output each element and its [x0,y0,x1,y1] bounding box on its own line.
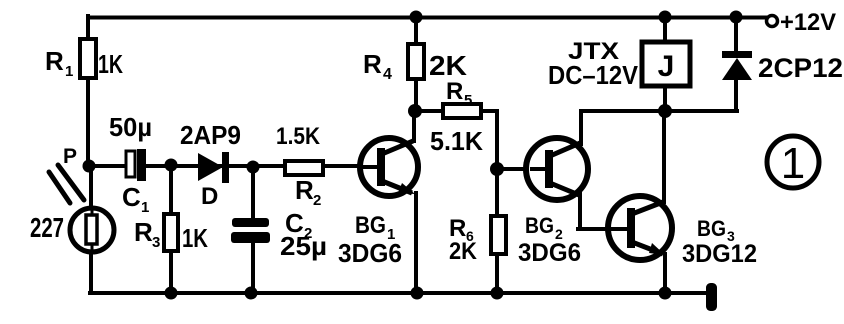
figure number circle 1 [767,136,819,188]
node bottom rail C2 [245,287,258,300]
light arrow 2 [58,165,84,200]
svg-text:2K: 2K [429,50,467,81]
node top rail R4 [410,11,423,24]
svg-text:DC–12V: DC–12V [548,60,639,90]
wire photoresistor branch down to bottom rail [89,166,93,293]
svg-text:R: R [295,175,314,205]
wire left drop from rail through R1 to node P [86,16,90,166]
transistor BG3 [608,196,672,260]
photoresistor 227 circle [70,208,114,252]
svg-text:3DG12: 3DG12 [682,240,757,268]
photoresistor 227 body [86,215,97,244]
resistor R1 [80,39,96,78]
svg-text:BG: BG [697,216,726,241]
capacitor C1 left plate [126,151,135,177]
svg-text:R: R [45,46,64,76]
wire corner down to BG2 base node [495,111,499,169]
light arrow 1 [49,172,70,203]
svg-text:5: 5 [464,92,472,109]
wire top supply rail [88,16,766,20]
svg-text:+12V: +12V [780,9,836,36]
wire R6 branch down to bottom rail [495,167,499,293]
node bottom rail BG3 emitter [659,287,672,300]
svg-text:1K: 1K [98,49,123,79]
wire BG2 emitter down then right to BG3 base [578,194,610,229]
svg-text:1.5K: 1.5K [276,123,321,150]
resistor R5 [443,104,481,118]
wire C2 branch lower [251,242,255,293]
node after C1 [165,159,178,172]
diode D triangle [198,153,223,181]
svg-text:3DG6: 3DG6 [518,239,581,267]
capacitor C2 top plate [232,218,269,227]
node bottom rail R3 [165,287,178,300]
wire 2CP12 bottom stub [734,78,738,111]
svg-text:D: D [201,183,218,210]
svg-text:1: 1 [65,63,73,80]
svg-text:R: R [363,49,382,79]
wire BG3 emitter down to bottom rail [663,254,667,293]
resistor R6 [491,216,506,254]
svg-text:BG: BG [525,213,554,238]
svg-text:4: 4 [383,66,392,83]
wire BG3 collector up to relay node [662,111,666,202]
wire BG1 emitter down to bottom rail [414,193,418,293]
svg-text:J: J [658,50,675,83]
terminal +12V circle [767,16,778,27]
wire BG1 collector up to node [412,109,416,141]
svg-text:2CP12: 2CP12 [758,53,843,83]
resistor R3 [164,214,178,251]
wire R5 node to corner [415,109,497,113]
diode D cathode bar [222,152,229,183]
wire signal line C1 to BG1 base [146,164,360,168]
capacitor C1 right plate [137,149,146,181]
node bottom rail BG1 emitter [411,287,424,300]
svg-text:R: R [446,78,463,105]
node bottom rail R6 [491,287,504,300]
svg-text:2AP9: 2AP9 [180,120,241,150]
svg-text:C: C [122,182,141,212]
svg-text:P: P [63,145,77,168]
wire relay bottom to link node [663,86,667,111]
wire relay stem from top rail [663,17,667,42]
svg-text:BG: BG [355,212,386,239]
transistor BG1 [360,138,418,196]
svg-text:1K: 1K [182,223,208,253]
svg-text:1: 1 [141,199,149,216]
svg-text:5.1K: 5.1K [430,126,483,156]
transistor BG2 [526,138,588,200]
node top rail relay [659,11,672,24]
relay J box [642,42,690,86]
wire horizontal link under relay [581,109,737,113]
photoresistor 227 inner wire [91,210,94,250]
diode 2CP12 cathode bar [722,51,752,58]
ground [706,283,717,311]
wire bottom ground rail [90,291,707,295]
svg-text:3: 3 [152,234,160,251]
svg-text:227: 227 [30,212,64,243]
wire BG2 collector up to horizontal link [579,111,583,144]
svg-text:50µ: 50µ [109,112,152,142]
capacitor C2 bottom plate [231,232,270,243]
wire 2CP12 top stub [734,17,738,52]
wire R3 branch down to bottom rail [169,166,173,293]
node A (P node) [83,160,96,173]
svg-text:R: R [134,217,153,247]
svg-text:3DG6: 3DG6 [338,238,402,268]
resistor R4 [408,44,424,79]
svg-text:2: 2 [313,192,321,209]
node top rail 2CP12 [730,11,743,24]
node after D [247,161,260,174]
node R4 R5 collector [408,104,422,118]
wire BG2 base node to BG2 [497,167,530,171]
svg-text:2K: 2K [449,238,478,265]
wire signal line node P to C1 [89,164,127,168]
node relay bottom link [658,104,672,118]
wire C2 branch upper [251,167,255,220]
wire R4 branch from top rail to node [414,17,418,111]
diode 2CP12 triangle [722,58,752,80]
svg-text:25µ: 25µ [280,231,327,261]
resistor R2 [285,161,323,175]
svg-text:1: 1 [781,139,805,188]
node BG2 base [490,162,504,176]
